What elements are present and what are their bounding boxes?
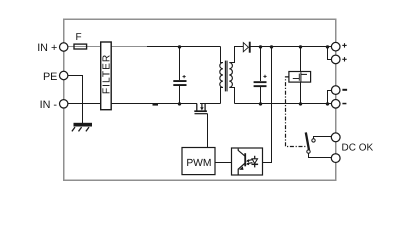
svg-text:DC OK: DC OK <box>342 142 374 153</box>
svg-text:FILTER: FILTER <box>102 54 113 94</box>
svg-text:PWM: PWM <box>186 158 211 169</box>
svg-text:F: F <box>75 32 81 43</box>
svg-text:IN +: IN + <box>37 42 57 54</box>
svg-text:IN -: IN - <box>40 99 58 111</box>
svg-text:PE: PE <box>43 71 57 83</box>
